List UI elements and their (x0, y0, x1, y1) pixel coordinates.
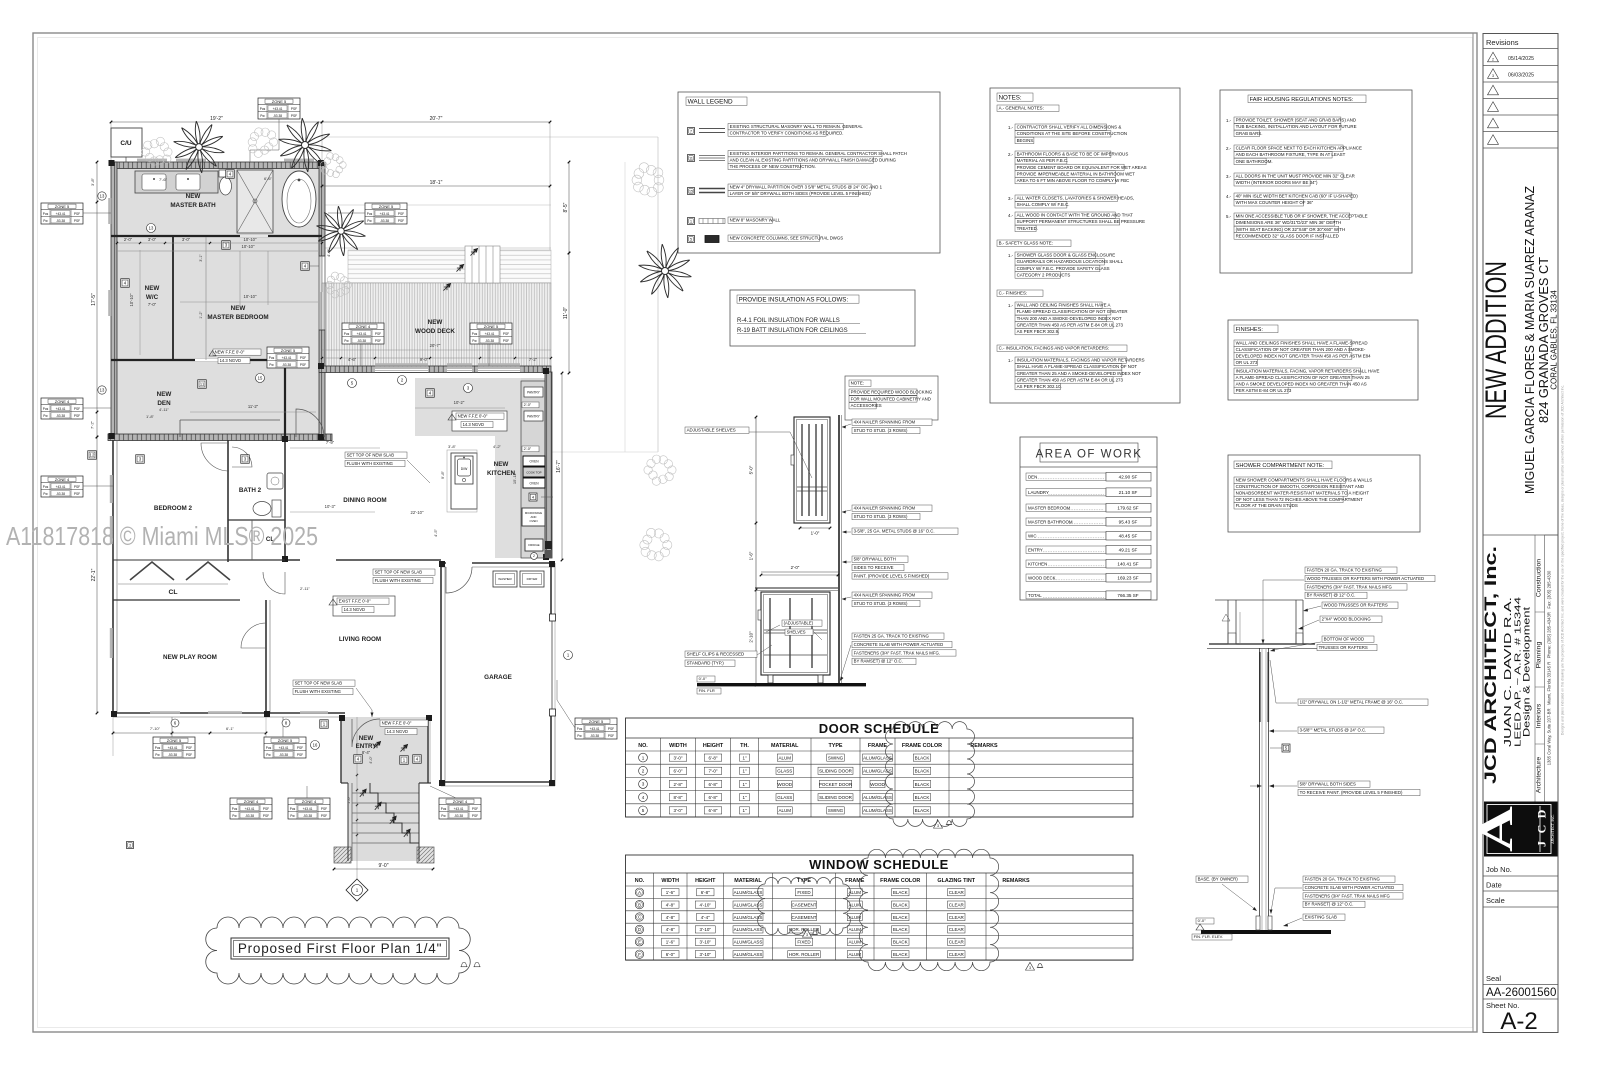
svg-text:4'-11": 4'-11" (159, 407, 169, 412)
section callout existing slab (1303, 914, 1345, 920)
wall tag squares small (127, 842, 134, 849)
svg-text:Pos: Pos (577, 727, 583, 731)
svg-text:3: 3 (1029, 966, 1031, 970)
svg-text:OVEN: OVEN (530, 519, 538, 523)
svg-text:CLEAR: CLEAR (949, 890, 965, 895)
svg-text:GARAGE: GARAGE (484, 674, 512, 681)
window schedule row D (635, 925, 643, 933)
svg-text:7'-2": 7'-2" (529, 357, 538, 362)
svg-text:CLEAR: CLEAR (949, 927, 965, 932)
svg-text:INSULATION MATERIALS, FACINGS: INSULATION MATERIALS, FACINGS AND VAPOR … (1017, 358, 1145, 363)
svg-text:SHELVES: SHELVES (787, 629, 806, 634)
svg-text:JCD ARCHITECT, Inc.: JCD ARCHITECT, Inc. (1482, 546, 1500, 784)
svg-text:ENTRY: ENTRY (356, 743, 378, 750)
svg-text:13: 13 (100, 388, 105, 393)
svg-text:EXISTING INTERIOR PARTITIONS T: EXISTING INTERIOR PARTITIONS TO REMAIN. … (730, 151, 907, 156)
svg-text:NEW: NEW (145, 285, 160, 292)
set top slab label entry (293, 680, 355, 686)
zone table left lower (41, 476, 83, 497)
deck south wall masonry (319, 366, 551, 373)
svg-text:ALUM: ALUM (848, 927, 861, 932)
svg-text:Pos: Pos (43, 407, 49, 411)
svg-text:1: 1 (642, 755, 645, 760)
svg-text:HEIGHT: HEIGHT (703, 743, 724, 749)
svg-text:CATEGORY 2 PRODUCTS: CATEGORY 2 PRODUCTS (1017, 272, 1071, 277)
svg-text:-53.38: -53.38 (245, 814, 254, 818)
site extension lines (322, 136, 658, 138)
svg-text:Pos: Pos (367, 212, 373, 216)
legend row 3 new drywall partition (688, 188, 695, 195)
svg-text:BASE. (BY OWNER): BASE. (BY OWNER) (1198, 877, 1239, 882)
svg-text:BLACK: BLACK (893, 915, 908, 920)
svg-text:PANTRY: PANTRY (527, 391, 541, 395)
svg-text:BLACK: BLACK (893, 927, 908, 932)
deck bottom dim line (322, 357, 551, 359)
ffe label kitchen (452, 411, 507, 431)
svg-text:BLACK: BLACK (915, 755, 930, 760)
svg-text:B: B (638, 902, 641, 907)
svg-text:TH.: TH. (740, 743, 749, 749)
svg-text:PSF: PSF (398, 219, 404, 223)
svg-text:1": 1" (742, 795, 747, 800)
svg-text:42.90 SF: 42.90 SF (1119, 475, 1138, 480)
svg-text:3-5/8"" METAL STUDS @ 24" O.C.: 3-5/8"" METAL STUDS @ 24" O.C. (1300, 728, 1367, 733)
svg-text:GLASS: GLASS (777, 795, 792, 800)
svg-text:40" MIN ISLE WIDTH BET KITCHEN: 40" MIN ISLE WIDTH BET KITCHEN CAB (60" … (1236, 194, 1359, 199)
svg-text:Interiors: Interiors (1536, 703, 1543, 728)
svg-text:SHOWER COMPARTMENT NOTE:: SHOWER COMPARTMENT NOTE: (1236, 463, 1325, 469)
roof overhang line above deck (322, 204, 551, 206)
svg-text:SWING: SWING (828, 808, 844, 813)
svg-text:FIN. FLR: FIN. FLR (699, 688, 715, 693)
svg-text:11: 11 (200, 382, 205, 387)
section callout drywall both sides (1298, 781, 1370, 787)
svg-text:POCKET DOOR: POCKET DOOR (819, 782, 853, 787)
svg-text:06/03/2025: 06/03/2025 (1508, 73, 1534, 79)
svg-text:SHALL HAVE A FLAME-SPREAD CLAS: SHALL HAVE A FLAME-SPREAD CLASSIFICATION… (1017, 364, 1138, 369)
svg-text:8'-4": 8'-4" (362, 750, 371, 755)
entry stair arrows (358, 788, 368, 798)
svg-text:ALUM: ALUM (848, 940, 861, 945)
area row TOTAL (1026, 592, 1106, 599)
svg-text:22'-1": 22'-1" (91, 568, 97, 581)
svg-text:DINING ROOM: DINING ROOM (343, 497, 386, 504)
svg-text:16: 16 (313, 743, 318, 748)
svg-text:6'-0": 6'-0" (674, 769, 683, 774)
svg-text:SLIDING DOOR: SLIDING DOOR (819, 769, 853, 774)
svg-text:PSF: PSF (300, 363, 306, 367)
svg-text:NONABSORBENT WATER-RESISTANT M: NONABSORBENT WATER-RESISTANT MATERIALS T… (1236, 490, 1370, 495)
kitchen island outline2 (447, 450, 477, 512)
svg-text:0'-0": 0'-0" (1198, 918, 1207, 923)
entry center line (356, 717, 358, 900)
svg-text:Pos: Pos (472, 332, 478, 336)
revision triangle 2 date 05/14/2025 (1488, 52, 1499, 62)
interior dims master bath row (117, 242, 322, 244)
svg-text:PROVIDE INSULATION AS FOLLOWS:: PROVIDE INSULATION AS FOLLOWS: (739, 296, 849, 303)
svg-text:PSF: PSF (375, 339, 381, 343)
svg-text:2: 2 (533, 554, 535, 558)
svg-text:SET TOP OF NEW SLAB: SET TOP OF NEW SLAB (347, 452, 395, 457)
revision triangle 3 date 06/03/2025 (1488, 69, 1499, 79)
svg-text:CONDITIONS AT THE SITE BEFORE: CONDITIONS AT THE SITE BEFORE CONSTRUCTI… (1017, 131, 1128, 136)
svg-text:3'-8": 3'-8" (90, 177, 95, 186)
svg-text:NOTES:: NOTES: (999, 94, 1022, 101)
svg-text:2'-11": 2'-11" (300, 586, 310, 591)
svg-text:Pos: Pos (43, 212, 49, 216)
fair housing regulations notes box (1220, 90, 1412, 273)
zone table deck right (470, 323, 512, 344)
svg-text:A.- GENERAL NOTES:: A.- GENERAL NOTES: (999, 106, 1044, 111)
area row DEN (1026, 473, 1106, 480)
svg-text:-53.38: -53.38 (56, 492, 65, 496)
svg-text:PSF: PSF (291, 114, 297, 118)
section callout fasten top (1305, 567, 1397, 573)
door schedule row 2 (639, 766, 648, 775)
svg-text:17'-5": 17'-5" (91, 293, 97, 306)
svg-text:A: A (1471, 806, 1522, 852)
svg-text:6'-1": 6'-1" (226, 726, 235, 731)
svg-text:FLUSH WITH EXISTING: FLUSH WITH EXISTING (375, 578, 421, 583)
master bath south wall (111, 235, 322, 237)
set top slab label garage (373, 569, 435, 575)
svg-text:WITH MAX COUNTER HEIGHT OF 36": WITH MAX COUNTER HEIGHT OF 36" (1236, 200, 1314, 205)
svg-text:ACCESSORIES: ACCESSORIES (851, 403, 882, 408)
adjustable shelves callout base (782, 620, 822, 626)
svg-text:6'-8": 6'-8" (709, 755, 718, 760)
svg-text:-53.38: -53.38 (168, 753, 177, 757)
svg-text:WIDTH (INTERIOR DOORS MAY BE 3: WIDTH (INTERIOR DOORS MAY BE 34") (1236, 180, 1318, 185)
svg-text:GREATER THAN 450 AS PER ASTM E: GREATER THAN 450 AS PER ASTM E-84 OR UL … (1017, 322, 1124, 327)
svg-text:HOR. ROLLER: HOR. ROLLER (789, 952, 820, 957)
svg-text:AREA TO 6 FT MIN ABOVE FLOOR T: AREA TO 6 FT MIN ABOVE FLOOR TO COMPLY W… (1017, 178, 1130, 183)
svg-text:1": 1" (742, 769, 747, 774)
svg-text:C/U: C/U (120, 140, 132, 147)
svg-text:4'-2": 4'-2" (493, 444, 502, 449)
svg-text:Revisions: Revisions (1486, 38, 1519, 47)
wall section studs (1259, 648, 1261, 930)
svg-text:4.-: 4.- (1008, 213, 1014, 218)
svg-text:Pw: Pw (232, 814, 237, 818)
bottom left extension lines (112, 717, 114, 756)
svg-text:+43.41: +43.41 (56, 212, 66, 216)
svg-text:SIDES TO RECEIVE: SIDES TO RECEIVE (854, 565, 894, 570)
svg-text:FRAME COLOR: FRAME COLOR (902, 743, 942, 749)
svg-text:NEW: NEW (494, 461, 509, 468)
entry gray fill (341, 717, 431, 783)
svg-text:LAYER OF 5/8" DRYWALL BOTH SID: LAYER OF 5/8" DRYWALL BOTH SIDES (PROVID… (730, 191, 872, 196)
svg-text:+43.41: +43.41 (454, 807, 464, 811)
svg-text:Design & Development: Design & Development (1522, 606, 1532, 737)
sliding door opening addition right wall (318, 256, 320, 330)
svg-text:1": 1" (742, 782, 747, 787)
svg-text:BEDROOM 2: BEDROOM 2 (154, 505, 193, 512)
zone table garage right (575, 718, 617, 739)
cabinet detail vertical dim line (755, 417, 757, 685)
svg-text:4'-8": 4'-8" (666, 927, 675, 932)
master bedroom closet lines (180, 419, 280, 421)
zone table deck left (342, 323, 384, 344)
section callout metal studs (1298, 727, 1384, 733)
svg-text:20'-7": 20'-7" (430, 343, 441, 348)
kitchen east masonry wall (545, 372, 552, 558)
svg-text:TOTAL: TOTAL (1028, 593, 1042, 598)
svg-text:C: C (1535, 825, 1549, 834)
entry steps edge (370, 783, 419, 843)
svg-text:FINISHES:: FINISHES: (1236, 327, 1264, 333)
svg-text:NEW CONCRETE COLUMNS, SEE STRU: NEW CONCRETE COLUMNS, SEE STRUCTURAL DWG… (730, 236, 844, 241)
section callout wood trusses (1322, 602, 1398, 608)
svg-text:PSF: PSF (503, 339, 509, 343)
dim right 11-0 (568, 253, 570, 373)
svg-text:20'-7": 20'-7" (430, 116, 443, 122)
svg-text:REMARKS: REMARKS (970, 743, 998, 749)
svg-text:14.3 NGVD: 14.3 NGVD (344, 607, 365, 612)
svg-text:3: 3 (129, 843, 131, 847)
svg-text:SET TOP OF NEW SLAB: SET TOP OF NEW SLAB (375, 569, 423, 574)
svg-text:140.41 SF: 140.41 SF (1117, 562, 1138, 567)
svg-text:FAIR HOUSING REGULATIONS NOTES: FAIR HOUSING REGULATIONS NOTES: (1250, 97, 1354, 103)
svg-text:NEW: NEW (157, 391, 172, 398)
svg-text:4'-4": 4'-4" (701, 915, 710, 920)
svg-text:Pw: Pw (344, 339, 349, 343)
svg-text:CLEAR: CLEAR (949, 952, 965, 957)
cabinet right callout 2 nailer (852, 505, 932, 511)
svg-text:WOOD: WOOD (870, 782, 885, 787)
svg-text:DEVELOPED INDEX NOT GREATER TH: DEVELOPED INDEX NOT GREATER THAN 450 AS … (1236, 353, 1371, 358)
cabinet right callout 4 drywall (852, 556, 908, 562)
svg-text:Planning: Planning (1536, 642, 1543, 669)
svg-text:ADJUSTABLE SHELVES: ADJUSTABLE SHELVES (687, 428, 736, 433)
svg-text:FRAME: FRAME (868, 743, 888, 749)
den east wall (284, 360, 286, 440)
svg-text:TREATED.: TREATED. (1017, 226, 1038, 231)
svg-text:FASTENERS (3/4" FAST. TRAK NAI: FASTENERS (3/4" FAST. TRAK NAILS MFG. (854, 650, 940, 655)
JCD logo (1485, 802, 1558, 856)
entry stairs (352, 792, 419, 794)
svg-text:A11817818 © Miami MLS® 2025: A11817818 © Miami MLS® 2025 (6, 521, 318, 551)
entry diamond symbol (346, 879, 368, 901)
svg-text:2'-0": 2'-0" (524, 447, 532, 451)
svg-text:CLEAR: CLEAR (949, 940, 965, 945)
svg-text:49.21 SF: 49.21 SF (1119, 548, 1138, 553)
svg-text:WOOD DECK: WOOD DECK (415, 328, 455, 335)
svg-text:PROVIDE REQUIRED WOOD BLOCKING: PROVIDE REQUIRED WOOD BLOCKING (851, 390, 933, 395)
svg-text:11'-2": 11'-2" (248, 404, 259, 409)
svg-text:COMPLY W/ F.B.C. PROVIDE SAFET: COMPLY W/ F.B.C. PROVIDE SAFETY GLASS (1017, 266, 1110, 271)
svg-text:CLEAR: CLEAR (949, 902, 965, 907)
svg-text:PROVIDE TOILET, SHOWER (SEAT A: PROVIDE TOILET, SHOWER (SEAT AND GRAB BA… (1236, 118, 1356, 123)
svg-text:5'-0": 5'-0" (749, 465, 754, 474)
base cabinet legs (768, 675, 773, 683)
svg-text:19'-2": 19'-2" (210, 116, 223, 122)
svg-text:-53.38: -53.38 (282, 363, 291, 367)
entry door arc (352, 719, 380, 747)
svg-text:NO.: NO. (635, 878, 645, 884)
svg-text:10'-3": 10'-3" (325, 504, 336, 509)
window schedule table (626, 855, 1134, 960)
cabinet detail wall line (838, 415, 840, 684)
empty revision triangles (1488, 85, 1499, 95)
bedroom2 walls (112, 440, 114, 713)
svg-text:MATERIAL: MATERIAL (734, 878, 762, 884)
svg-text:AND CLEAN AL EXISTING PARTITIO: AND CLEAN AL EXISTING PARTITIONS AND DRY… (730, 157, 897, 162)
window schedule row C (635, 913, 643, 921)
svg-text:1.-: 1.- (1008, 303, 1014, 308)
floor plan group (41, 98, 691, 901)
svg-text:ALUM/GLASS: ALUM/GLASS (734, 927, 763, 932)
svg-text:PSF: PSF (375, 332, 381, 336)
door window tag squares (226, 170, 235, 179)
svg-text:PSF: PSF (300, 356, 306, 360)
svg-text:Pw: Pw (577, 734, 582, 738)
svg-text:PSF: PSF (74, 492, 80, 496)
svg-text:NEW: NEW (428, 319, 443, 326)
svg-text:2.-: 2.- (1008, 152, 1014, 157)
legend row 2 existing partitions (688, 155, 695, 162)
svg-text:NEW 8" MASONRY WALL: NEW 8" MASONRY WALL (730, 218, 781, 223)
svg-text:ZONE 4: ZONE 4 (55, 399, 70, 404)
living playroom door arc (241, 623, 266, 648)
svg-text:PSF: PSF (608, 734, 614, 738)
dim right 16-7 (561, 373, 563, 560)
addition right wall (319, 162, 325, 256)
svg-text:6'-8": 6'-8" (709, 782, 718, 787)
svg-text:+43.41: +43.41 (303, 807, 313, 811)
svg-text:5: 5 (690, 237, 692, 241)
svg-text:D: D (638, 927, 641, 932)
svg-text:14.3 NGVD: 14.3 NGVD (220, 358, 241, 363)
svg-text:Pos: Pos (266, 746, 272, 750)
svg-text:7: 7 (690, 129, 692, 133)
svg-text:6'-8": 6'-8" (701, 890, 710, 895)
svg-text:95.43 SF: 95.43 SF (1119, 520, 1138, 525)
svg-text:1.-: 1.- (1226, 118, 1232, 123)
svg-text:WOOD DECK: WOOD DECK (1028, 576, 1056, 581)
svg-text:Pw: Pw (43, 414, 48, 418)
svg-text:4X4 NAILER SPANNING FROM: 4X4 NAILER SPANNING FROM (854, 593, 916, 598)
svg-text:COOK TOP: COOK TOP (526, 471, 541, 475)
wic east wall (172, 236, 174, 360)
svg-text:Designs and plans indicated on: Designs and plans indicated on this draw… (1561, 385, 1565, 735)
svg-text:2'-0": 2'-0" (791, 565, 800, 570)
svg-text:NEW SHOWER COMPARTMENTS SHALL: NEW SHOWER COMPARTMENTS SHALL HAVE FLOOR… (1236, 478, 1373, 483)
svg-text:2'-0": 2'-0" (524, 403, 532, 407)
svg-text:EXISTING SLAB: EXISTING SLAB (1305, 915, 1337, 920)
svg-text:DEN: DEN (157, 400, 171, 407)
svg-text:MASTER BATH: MASTER BATH (170, 202, 216, 209)
zone table left upper (41, 203, 83, 224)
svg-text:FRAME COLOR: FRAME COLOR (880, 878, 920, 884)
svg-text:6'-8": 6'-8" (709, 795, 718, 800)
svg-text:ZONE 4: ZONE 4 (244, 799, 259, 804)
svg-text:2"X4" WOOD BLOCKING: 2"X4" WOOD BLOCKING (1322, 617, 1372, 622)
svg-text:D: D (1535, 809, 1549, 818)
entry side walls (347, 783, 349, 861)
svg-text:SWING: SWING (828, 755, 844, 760)
finishes box (1228, 320, 1418, 400)
svg-text:PSF: PSF (321, 814, 327, 818)
closet wall bedroom2 (113, 559, 228, 561)
entry west wall (340, 717, 342, 783)
svg-text:NEW F.F.E 0'-0": NEW F.F.E 0'-0" (215, 349, 245, 354)
svg-text:MIN ONE ACCESSIBLE TUB OR IF S: MIN ONE ACCESSIBLE TUB OR IF SHOWER, THE… (1236, 214, 1368, 219)
section callout bottom of wood (1322, 636, 1374, 642)
svg-text:1: 1 (690, 219, 692, 223)
svg-text:MATERIAL AS PER F.B.C.: MATERIAL AS PER F.B.C. (1017, 158, 1069, 163)
svg-text:WALL AND CEILINGS FINISHES SHA: WALL AND CEILINGS FINISHES SHALL HAVE A … (1236, 341, 1368, 346)
dim top 20-7 (322, 121, 550, 123)
svg-text:OR UL 273: OR UL 273 (1236, 360, 1258, 365)
svg-text:BATHROOM FLOORS & BASE TO BE O: BATHROOM FLOORS & BASE TO BE OF IMPERVIO… (1017, 152, 1129, 157)
svg-text:4X4 NAILER SPANNING FROM: 4X4 NAILER SPANNING FROM (854, 506, 916, 511)
svg-text:4.-: 4.- (1226, 194, 1232, 199)
svg-text:3'-10": 3'-10" (700, 927, 712, 932)
svg-text:Pos: Pos (260, 107, 266, 111)
svg-text:Scale: Scale (1486, 896, 1505, 905)
area row WOOD DECK (1026, 574, 1106, 581)
svg-text:10'-10": 10'-10" (244, 237, 258, 242)
svg-text:PSF: PSF (608, 727, 614, 731)
area row MASTER BATHROOM (1026, 518, 1106, 525)
svg-text:ALL WATER CLOSETS, LAVATORIES: ALL WATER CLOSETS, LAVATORIES & SHOWER H… (1017, 196, 1135, 201)
zone table left mid (41, 398, 83, 419)
shower compartment note box (1228, 455, 1420, 532)
svg-text:Architecture: Architecture (1536, 757, 1543, 793)
door schedule table (626, 718, 1134, 817)
svg-text:STANDARD (TYP.): STANDARD (TYP.) (687, 661, 725, 666)
svg-text:J: J (1535, 841, 1549, 847)
svg-text:169.23 SF: 169.23 SF (1117, 576, 1138, 581)
svg-text:7'-9": 7'-9" (326, 440, 335, 445)
legend row 4 new masonry wall (688, 218, 695, 225)
bath2 closet wall (228, 519, 285, 521)
svg-text:WOOD: WOOD (778, 782, 793, 787)
svg-text:3'-0": 3'-0" (674, 755, 683, 760)
svg-text:2.-: 2.- (1226, 146, 1232, 151)
wood deck boards (348, 250, 551, 283)
svg-text:2'-0": 2'-0" (124, 237, 133, 242)
play room east wall (265, 600, 267, 713)
cabinet right callout 1 nailer (852, 419, 932, 425)
svg-text:FRIDGE: FRIDGE (528, 543, 539, 547)
top wall window sills (137, 159, 167, 162)
bedroom2 door arc (201, 443, 229, 471)
svg-text:STUD TO STUD. (3 ROWS): STUD TO STUD. (3 ROWS) (854, 601, 908, 606)
kitchen dark corner blocks (545, 541, 552, 549)
svg-text:PSF: PSF (263, 814, 269, 818)
svg-text:3'-10": 3'-10" (700, 952, 712, 957)
svg-text:5.-: 5.- (1226, 214, 1232, 219)
fin flr label cabinet (697, 676, 715, 682)
svg-text:PROVIDE IMPERMEABLE MATERIAL I: PROVIDE IMPERMEABLE MATERIAL IN BATHROOM… (1017, 171, 1136, 176)
section fin flr elev label (1196, 918, 1214, 924)
svg-text:SUPPORT PERMANENT STRUCTURES S: SUPPORT PERMANENT STRUCTURES SHALL BE PR… (1017, 219, 1145, 224)
svg-text:Pos: Pos (269, 356, 275, 360)
svg-text:1": 1" (742, 808, 747, 813)
svg-text:+43.41: +43.41 (168, 746, 178, 750)
svg-text:6'-8": 6'-8" (709, 808, 718, 813)
svg-text:ALL WOOD IN CONTACT WITH THE G: ALL WOOD IN CONTACT WITH THE GROUND AND … (1017, 213, 1134, 218)
svg-text:TYPE: TYPE (828, 743, 842, 749)
svg-text:PSF: PSF (503, 332, 509, 336)
svg-text:-53.38: -53.38 (454, 814, 463, 818)
svg-text:3: 3 (806, 933, 808, 937)
svg-text:NEW PLAY ROOM: NEW PLAY ROOM (163, 654, 217, 661)
svg-text:1.-: 1.- (1008, 358, 1014, 363)
svg-text:-53.38: -53.38 (357, 339, 366, 343)
legend row 1 existing masonry (688, 128, 695, 135)
